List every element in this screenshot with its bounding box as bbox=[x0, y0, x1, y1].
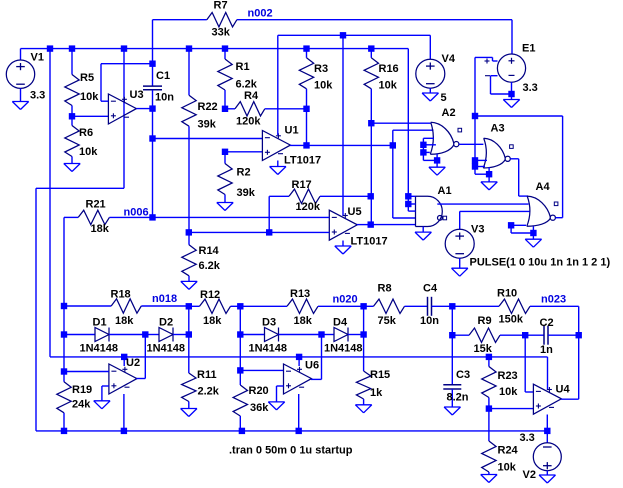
wire junction bbox=[69, 45, 75, 51]
svg-text:R17: R17 bbox=[292, 179, 312, 191]
wire bottom rail bbox=[36, 430, 547, 432]
wire rail to bottom-left rail bbox=[36, 49, 124, 431]
ground A1 bbox=[415, 232, 431, 240]
svg-text:E1: E1 bbox=[522, 43, 535, 55]
wire top rail bbox=[21, 48, 409, 50]
wire rail to A1 inputs bbox=[408, 49, 415, 212]
wire C1 bottom down bbox=[152, 109, 154, 139]
svg-text:R15: R15 bbox=[370, 369, 390, 381]
svg-text:1N4148: 1N4148 bbox=[80, 343, 119, 355]
wire to A1 input4 bbox=[393, 145, 416, 218]
wire junction bbox=[472, 157, 478, 163]
wire junction bbox=[420, 149, 426, 155]
svg-text:R5: R5 bbox=[80, 72, 94, 84]
wire n020b column bbox=[363, 306, 365, 334]
voltage source V3 bbox=[445, 229, 474, 258]
resistor R21 bbox=[64, 210, 153, 224]
wire R3 down to U1 out bbox=[306, 109, 308, 146]
svg-text:15k: 15k bbox=[474, 343, 493, 355]
svg-text:PULSE(1 0 10u 1n 1n 1 2 1): PULSE(1 0 10u 1n 1n 1 2 1) bbox=[470, 257, 611, 269]
wire V3 to A4 bbox=[460, 210, 530, 212]
wire A2 output to A3 bbox=[459, 143, 484, 145]
svg-text:A3: A3 bbox=[491, 123, 505, 135]
resistor R9 bbox=[452, 328, 525, 342]
svg-text:10k: 10k bbox=[80, 91, 99, 103]
wire E1 bottom bbox=[511, 82, 513, 99]
resistor R16 bbox=[364, 49, 378, 124]
svg-text:18k: 18k bbox=[294, 315, 313, 327]
ground U6+ bbox=[268, 402, 284, 410]
wire R14 top bbox=[188, 232, 190, 244]
wire U1 out bbox=[290, 144, 307, 146]
svg-text:.tran 0 50m 0 1u startup: .tran 0 50m 0 1u startup bbox=[229, 445, 353, 457]
wire V3 top bbox=[459, 211, 461, 229]
svg-text:V3: V3 bbox=[471, 224, 484, 236]
op-amp U4 bbox=[533, 384, 561, 414]
ground U5 bbox=[335, 246, 351, 254]
svg-text:1n: 1n bbox=[540, 344, 553, 356]
wire junction bbox=[530, 230, 536, 236]
logic gate A1 bbox=[416, 196, 447, 226]
wire V1 top bbox=[20, 49, 22, 60]
wire junction bbox=[368, 221, 374, 227]
wire to A2 input2 bbox=[393, 130, 434, 145]
wire E1 ctrl / A3 inputs bbox=[475, 57, 489, 174]
wire to U1 minus bbox=[153, 138, 263, 140]
svg-text:n002: n002 bbox=[248, 8, 273, 20]
ground V4 bbox=[422, 93, 438, 101]
wire A1 common ground bbox=[422, 227, 424, 233]
svg-text:2.2k: 2.2k bbox=[198, 386, 220, 398]
svg-text:D1: D1 bbox=[93, 317, 107, 329]
capacitor C1 bbox=[143, 64, 162, 109]
svg-text:n020: n020 bbox=[333, 294, 358, 306]
wire A3 pin stub2 bbox=[475, 166, 485, 168]
svg-text:R6: R6 bbox=[79, 127, 93, 139]
svg-text:R16: R16 bbox=[379, 63, 399, 75]
wire A2 pin5 stub bbox=[423, 151, 429, 153]
wire junction bbox=[296, 354, 302, 360]
wire A2 pin4 stub bbox=[423, 144, 436, 146]
wire U3 feedback bbox=[101, 64, 153, 101]
svg-text:A4: A4 bbox=[536, 181, 551, 193]
wire junction bbox=[390, 142, 396, 148]
ground V3 bbox=[452, 268, 468, 276]
ground E1 bbox=[503, 100, 519, 108]
wire U3 out bbox=[136, 108, 152, 110]
wire junction bbox=[434, 157, 440, 163]
svg-text:8.2n: 8.2n bbox=[447, 392, 469, 404]
svg-text:U1: U1 bbox=[285, 125, 299, 137]
svg-text:R24: R24 bbox=[498, 445, 519, 457]
wire junction bbox=[69, 113, 75, 119]
wire junction bbox=[222, 149, 228, 155]
wire U4 out bbox=[561, 335, 579, 399]
wire junction bbox=[472, 163, 478, 169]
wire junction bbox=[405, 201, 411, 207]
wire junction bbox=[449, 332, 455, 338]
wire junction bbox=[61, 368, 67, 374]
svg-text:1k: 1k bbox=[370, 387, 383, 399]
wire A2 input1 bbox=[371, 122, 431, 124]
ground R6 bbox=[64, 164, 80, 172]
svg-text:1N4148: 1N4148 bbox=[324, 343, 363, 355]
svg-text:R12: R12 bbox=[200, 289, 220, 301]
svg-text:R4: R4 bbox=[244, 90, 259, 102]
wire junction bbox=[222, 45, 228, 51]
ground R24 bbox=[481, 475, 497, 483]
wire supply from rail bbox=[50, 49, 548, 390]
wire U6 plus hook bbox=[277, 386, 284, 402]
op-amp U5 bbox=[329, 210, 357, 240]
wire junction bbox=[360, 331, 366, 337]
svg-text:6.2k: 6.2k bbox=[236, 79, 258, 91]
wire junction bbox=[149, 135, 155, 141]
svg-text:A1: A1 bbox=[438, 185, 452, 197]
resistor R10 bbox=[452, 299, 578, 313]
wire junction bbox=[121, 354, 127, 360]
svg-text:n018: n018 bbox=[152, 293, 177, 305]
wire R16 down to U5 out bbox=[370, 123, 372, 224]
capacitor C3 bbox=[443, 385, 461, 407]
wire junction bbox=[186, 331, 192, 337]
capacitor C4 bbox=[428, 297, 453, 316]
resistor R5 bbox=[65, 49, 79, 117]
ground A4 bbox=[525, 239, 541, 247]
svg-text:C3: C3 bbox=[456, 369, 470, 381]
svg-text:D4: D4 bbox=[333, 317, 348, 329]
wire junction bbox=[340, 32, 346, 38]
wire junction bbox=[486, 405, 492, 411]
wire junction bbox=[486, 354, 492, 360]
wire A1 output bbox=[437, 203, 528, 205]
wire A1 input2 stub bbox=[408, 203, 415, 205]
wire U2 V- drop bbox=[123, 394, 125, 431]
wire U5 out to A1 bbox=[371, 224, 416, 226]
svg-text:75k: 75k bbox=[378, 315, 397, 327]
op-amp U6 bbox=[284, 364, 312, 394]
resistor R15 bbox=[356, 335, 370, 405]
ground R14 bbox=[181, 281, 197, 289]
wire V3 bottom bbox=[459, 258, 461, 268]
wire junction bbox=[303, 142, 309, 148]
diode D1 bbox=[64, 328, 145, 342]
wire U2 V+ stub bbox=[123, 357, 125, 366]
wire junction bbox=[522, 332, 528, 338]
svg-text:10k: 10k bbox=[499, 386, 518, 398]
svg-text:120k: 120k bbox=[236, 116, 261, 128]
logic gate A4 bbox=[527, 196, 558, 226]
wire junction bbox=[61, 303, 67, 309]
wire U5 plus row bbox=[189, 231, 329, 233]
resistor R7 bbox=[153, 13, 513, 27]
wire C3 top bbox=[451, 335, 453, 385]
svg-text:C4: C4 bbox=[423, 283, 438, 295]
ground V1 bbox=[12, 102, 28, 110]
wire R9 row start bbox=[451, 306, 453, 335]
ground R2 bbox=[217, 203, 233, 211]
svg-text:R1: R1 bbox=[236, 61, 250, 73]
wire junction bbox=[449, 303, 455, 309]
wire V2 top bbox=[546, 431, 548, 443]
wire junction bbox=[121, 45, 127, 51]
wire junction bbox=[47, 45, 53, 51]
resistor R23 bbox=[482, 357, 496, 409]
wire n018 column bbox=[188, 306, 190, 334]
wire junction bbox=[237, 303, 243, 309]
ground V2 bbox=[539, 475, 555, 483]
capacitor C2 bbox=[525, 326, 579, 345]
wire junction bbox=[237, 367, 243, 373]
voltage source V1 bbox=[6, 60, 34, 88]
svg-text:R2: R2 bbox=[237, 167, 251, 179]
wire U5 out bbox=[357, 224, 371, 226]
resistor R6 bbox=[65, 116, 79, 163]
svg-text:U4: U4 bbox=[556, 384, 571, 396]
wire U6 out bbox=[311, 335, 322, 380]
svg-text:R8: R8 bbox=[378, 283, 392, 295]
svg-text:A2: A2 bbox=[442, 107, 456, 119]
ground R11 bbox=[181, 409, 197, 417]
wire junction bbox=[149, 214, 155, 220]
wire left column bbox=[63, 306, 65, 372]
wire A4 pin stub bbox=[511, 224, 526, 226]
wire U6 V- drop bbox=[298, 394, 300, 431]
resistor R20 bbox=[233, 370, 247, 431]
wire A4 output to E1 ctrl bbox=[475, 116, 563, 218]
wire junction bbox=[61, 428, 67, 434]
svg-text:LT1017: LT1017 bbox=[284, 155, 321, 167]
svg-text:1N4148: 1N4148 bbox=[147, 343, 186, 355]
svg-text:R18: R18 bbox=[111, 289, 131, 301]
wire junction bbox=[266, 229, 272, 235]
svg-text:10k: 10k bbox=[79, 146, 98, 158]
svg-text:U2: U2 bbox=[126, 357, 140, 369]
svg-text:V2: V2 bbox=[523, 469, 536, 481]
svg-text:LT1017: LT1017 bbox=[351, 236, 388, 248]
svg-text:10k: 10k bbox=[314, 80, 333, 92]
ground C3 bbox=[444, 407, 460, 415]
wire U2 out bbox=[137, 335, 146, 379]
svg-text:D2: D2 bbox=[159, 317, 173, 329]
wire U4 V- drop bbox=[546, 415, 548, 431]
wire junction bbox=[149, 105, 155, 111]
svg-text:U5: U5 bbox=[348, 206, 362, 218]
svg-text:150k: 150k bbox=[499, 314, 524, 326]
op-amp U2 bbox=[109, 364, 137, 394]
svg-text:R19: R19 bbox=[72, 384, 92, 396]
svg-text:R21: R21 bbox=[86, 199, 106, 211]
op-amp U3 bbox=[108, 94, 136, 124]
wire U1 V- to ground bbox=[277, 161, 279, 167]
svg-text:3.3: 3.3 bbox=[523, 82, 538, 94]
resistor R4 bbox=[225, 102, 307, 116]
svg-text:R10: R10 bbox=[497, 288, 517, 300]
svg-text:39k: 39k bbox=[198, 119, 217, 131]
svg-text:24k: 24k bbox=[72, 399, 91, 411]
wire junction bbox=[186, 303, 192, 309]
wire V4 supply bbox=[278, 35, 431, 135]
wire R21 left drop bbox=[63, 217, 65, 306]
resistor R17 bbox=[269, 189, 371, 203]
wire V1 bottom bbox=[20, 88, 22, 101]
wire A2 common stem bbox=[436, 154, 438, 167]
logic gate A3 bbox=[483, 138, 513, 168]
wire junction bbox=[368, 193, 374, 199]
ground U1 bbox=[270, 167, 286, 175]
resistor R14 bbox=[182, 245, 196, 282]
ground A2 bbox=[429, 167, 445, 175]
svg-text:V4: V4 bbox=[442, 53, 456, 65]
svg-text:U3: U3 bbox=[130, 89, 144, 101]
wire n002 to E1 bbox=[511, 20, 513, 54]
wire R17 left drop bbox=[268, 196, 270, 232]
wire V4 bottom bbox=[429, 88, 431, 93]
svg-text:V1: V1 bbox=[31, 52, 44, 64]
wire junction bbox=[576, 332, 582, 338]
resistor R13 bbox=[240, 299, 363, 313]
wire junction bbox=[296, 428, 302, 434]
svg-text:10n: 10n bbox=[155, 92, 174, 104]
wire n020 column bbox=[239, 306, 241, 370]
wire U2 plus hook bbox=[102, 386, 109, 401]
wire n023 drop bbox=[578, 306, 580, 335]
svg-text:1N4148: 1N4148 bbox=[249, 343, 288, 355]
resistor R11 bbox=[182, 335, 196, 409]
wire junction bbox=[121, 428, 127, 434]
wire U6 V+ stub bbox=[298, 357, 300, 366]
wire junction bbox=[303, 45, 309, 51]
svg-text:18k: 18k bbox=[91, 223, 110, 235]
wire R23 to U4 plus bbox=[489, 408, 534, 410]
resistor R22 bbox=[182, 49, 196, 233]
wire junction bbox=[544, 428, 550, 434]
wire to U1 plus bbox=[225, 151, 262, 153]
svg-text:R11: R11 bbox=[197, 369, 217, 381]
wire junction bbox=[508, 222, 514, 228]
svg-text:39k: 39k bbox=[237, 187, 256, 199]
svg-text:3.3: 3.3 bbox=[30, 90, 45, 102]
wire junction bbox=[368, 45, 374, 51]
wire junction bbox=[237, 331, 243, 337]
wire R5-R6 to U3+ bbox=[72, 115, 108, 117]
svg-text:18k: 18k bbox=[203, 315, 222, 327]
svg-text:n023: n023 bbox=[541, 294, 566, 306]
svg-text:36k: 36k bbox=[250, 402, 269, 414]
wire junction bbox=[508, 91, 514, 97]
wire junction bbox=[239, 428, 245, 434]
svg-text:33k: 33k bbox=[212, 27, 231, 39]
resistor R1 bbox=[218, 49, 232, 109]
svg-text:R20: R20 bbox=[249, 385, 269, 397]
wire A1 input1 stub bbox=[408, 195, 415, 197]
resistor R18 bbox=[64, 299, 189, 313]
wire junction bbox=[420, 142, 426, 148]
wire U5 V+ drop bbox=[342, 35, 344, 216]
wire U6 minus row bbox=[240, 369, 283, 371]
svg-text:C1: C1 bbox=[156, 70, 170, 82]
ground U2+ bbox=[94, 401, 110, 409]
diode D4 bbox=[322, 328, 364, 342]
op-amp U1 bbox=[262, 131, 290, 161]
svg-text:10k: 10k bbox=[379, 80, 398, 92]
svg-text:R7: R7 bbox=[214, 0, 228, 12]
voltage source V4 bbox=[416, 59, 445, 88]
svg-text:120k: 120k bbox=[296, 201, 321, 213]
wire n006 to U5 minus bbox=[153, 216, 330, 218]
wire junction bbox=[142, 331, 148, 337]
svg-text:R3: R3 bbox=[314, 63, 328, 75]
wire junction bbox=[61, 331, 67, 337]
svg-text:U6: U6 bbox=[305, 360, 319, 372]
diode D3 bbox=[240, 328, 321, 342]
wire junction bbox=[222, 106, 228, 112]
svg-text:10k: 10k bbox=[498, 462, 517, 474]
wire junction bbox=[318, 331, 324, 337]
resistor R12 bbox=[189, 299, 241, 313]
wire down to n006 bbox=[152, 139, 154, 218]
wire junction bbox=[472, 113, 478, 119]
svg-text:R22: R22 bbox=[198, 101, 218, 113]
wire junction bbox=[149, 61, 155, 67]
wire junction bbox=[303, 106, 309, 112]
wire U1 out to A-gates bbox=[307, 144, 393, 146]
dependent source E1 bbox=[497, 54, 525, 82]
wire A3 common stem bbox=[488, 167, 490, 182]
wire junction bbox=[186, 45, 192, 51]
svg-text:5: 5 bbox=[441, 92, 447, 104]
wire U2 minus row bbox=[64, 371, 109, 373]
wire A2 unused inputs tie bbox=[423, 138, 437, 160]
resistor R8 bbox=[364, 299, 428, 313]
svg-text:D3: D3 bbox=[262, 317, 276, 329]
resistor R2 bbox=[218, 152, 232, 203]
wire junction bbox=[360, 303, 366, 309]
wire junction bbox=[368, 120, 374, 126]
svg-text:R13: R13 bbox=[290, 288, 310, 300]
wire V2 bottom bbox=[546, 471, 548, 475]
resistor R3 bbox=[299, 49, 313, 109]
wire junction bbox=[186, 229, 192, 235]
svg-text:18k: 18k bbox=[115, 315, 134, 327]
svg-text:C2: C2 bbox=[540, 317, 554, 329]
svg-text:3.3: 3.3 bbox=[520, 432, 535, 444]
wire A3 pin stub1 bbox=[475, 159, 487, 161]
svg-text:R9: R9 bbox=[478, 315, 492, 327]
svg-text:6.2k: 6.2k bbox=[199, 260, 221, 272]
wire junction bbox=[486, 171, 492, 177]
svg-text:R23: R23 bbox=[498, 370, 518, 382]
svg-text:R14: R14 bbox=[199, 245, 220, 257]
wire A4 unused tie bbox=[511, 225, 533, 233]
svg-text:10n: 10n bbox=[420, 315, 439, 327]
wire R7 left drop bbox=[152, 20, 154, 64]
voltage source V2 bbox=[533, 443, 561, 471]
wire to U4 minus bbox=[525, 335, 533, 392]
wire U5 V- to ground bbox=[342, 241, 344, 247]
diode D2 bbox=[145, 328, 189, 342]
resistor R24 bbox=[482, 409, 496, 475]
wire junction bbox=[405, 193, 411, 199]
logic gate A2 bbox=[430, 122, 461, 154]
resistor R19 bbox=[57, 372, 71, 431]
wire A3 output bbox=[510, 159, 528, 196]
wire A4 common stem bbox=[532, 226, 534, 239]
ground R15 bbox=[355, 405, 371, 413]
E1 control pins bbox=[475, 57, 512, 94]
ground A3 bbox=[481, 182, 497, 190]
